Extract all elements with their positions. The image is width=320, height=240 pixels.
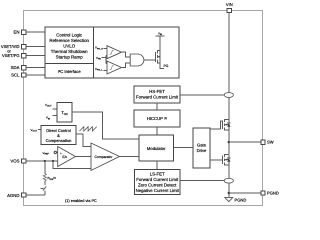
- wire VOUT to Direct Control: [38, 128, 41, 130]
- current sensor HS (ellipse): [224, 93, 233, 98]
- block HICCUP: [134, 110, 180, 127]
- block: Control Logic / Reference Selection / UVLO / Thermal Shutdown / Startup Ramp + I2C Interface: [45, 27, 179, 78]
- transistor HS-FET: [222, 119, 230, 131]
- wire sensor to PGND junction: [228, 183, 230, 197]
- pin PGND (right): [261, 191, 279, 196]
- svg-text:Forward Current Limit: Forward Current Limit: [136, 177, 179, 182]
- pin SCL: [11, 73, 26, 78]
- wire VOUT to T_ON: [53, 108, 58, 110]
- wire Modulator to Gate Drive: [174, 147, 194, 149]
- wire PG FET source to PG output: [160, 63, 164, 69]
- pin SW: [261, 140, 274, 145]
- switch (discharge enable): [41, 181, 47, 195]
- wire Gate Drive to HS-FET gate: [210, 121, 222, 129]
- wire sensor to HS-FET drain: [228, 97, 230, 119]
- svg-text:VREF: VREF: [43, 151, 50, 156]
- node junction at R_DIS branch: [44, 160, 46, 162]
- wire AND output to PG FET gate: [144, 59, 156, 61]
- wire HS block to HICCUP: [156, 103, 158, 110]
- svg-text:PG: PG: [164, 64, 169, 68]
- wire LS-FET source to sensor: [228, 165, 230, 178]
- wire SW node to SW pin: [229, 141, 261, 143]
- svg-text:Thermal Shutdown: Thermal Shutdown: [51, 49, 88, 54]
- wire SDA to I2C interface: [26, 67, 45, 69]
- block HS-FET Forward Current Limit: [134, 86, 180, 103]
- ramp waveform symbol: [80, 127, 97, 131]
- wire VIN down to current sense: [228, 13, 230, 93]
- svg-text:SCL: SCL: [11, 73, 20, 78]
- wire VOS to comparator lower input: [53, 161, 91, 169]
- wire VPG_H to comparator: [104, 48, 108, 50]
- pin AGND: [7, 193, 26, 198]
- svg-text:VOS: VOS: [10, 159, 19, 164]
- node junction at comparator branch: [52, 160, 54, 162]
- wire VREF to EA: [57, 151, 58, 153]
- pin VSET/FG: [2, 53, 26, 58]
- wire T_ON to Modulator: [72, 112, 139, 139]
- node V_REF terminal circle: [54, 151, 56, 153]
- current sensor LS (ellipse): [224, 178, 233, 183]
- svg-text:Reference Selection: Reference Selection: [49, 38, 89, 43]
- svg-text:Control Logic: Control Logic: [56, 33, 83, 38]
- wire LS block to LS current sensor: [180, 180, 224, 182]
- wire VIN to T_ON: [53, 114, 58, 116]
- svg-text:(1) enabled via I²C: (1) enabled via I²C: [65, 199, 97, 203]
- svg-text:Gate: Gate: [197, 142, 207, 147]
- block Direct Control & Compensation: [41, 126, 76, 145]
- wire Gate Drive to LS-FET gate: [210, 159, 222, 161]
- svg-text:I²C Interface: I²C Interface: [58, 69, 82, 74]
- svg-text:VSET/FG: VSET/FG: [2, 53, 20, 58]
- svg-text:PGND: PGND: [267, 191, 279, 196]
- wire EA output to comparator: [76, 156, 92, 158]
- wire VFB split to both comparators: [102, 56, 108, 64]
- block Modulator: [139, 135, 174, 161]
- pin EN: [14, 30, 26, 35]
- wire Direct Control ramp to comparator: [76, 134, 91, 147]
- resistor R_DIS: [43, 161, 56, 181]
- wire junction to PGND pin: [229, 192, 261, 194]
- svg-text:VIN: VIN: [46, 116, 51, 121]
- svg-text:Modulator: Modulator: [147, 146, 166, 151]
- transistor LS-FET: [222, 154, 230, 166]
- wire HS-FET source to SW node: [228, 130, 230, 154]
- block LS-FET Forward Current Limit / Zero Current Detect / Negative Current Limit: [135, 170, 181, 195]
- svg-text:LS-FET: LS-FET: [150, 172, 165, 177]
- svg-text:HS-FET: HS-FET: [149, 89, 165, 94]
- AND gate: [130, 54, 144, 66]
- wire HICCUP to Modulator: [156, 127, 158, 135]
- svg-text:Forward Current Limit: Forward Current Limit: [136, 95, 179, 100]
- svg-text:VOUT: VOUT: [45, 103, 52, 108]
- wire PG FET drain to VIN rail tap: [159, 36, 161, 50]
- ground PGND: [225, 197, 247, 202]
- svg-text:SDA: SDA: [11, 65, 20, 70]
- svg-text:VOUT: VOUT: [31, 128, 38, 133]
- comparator PG lower: [107, 61, 122, 74]
- wire VPG_L to comparator: [104, 69, 108, 71]
- node SW junction: [228, 141, 230, 143]
- svg-text:EN: EN: [14, 30, 20, 35]
- svg-text:Startup Ramp: Startup Ramp: [56, 55, 84, 60]
- op-amp EA (error amplifier): [58, 147, 76, 167]
- node PGND junction: [228, 192, 230, 194]
- svg-text:Comparator: Comparator: [95, 155, 114, 159]
- svg-text:Zero Current Detect: Zero Current Detect: [138, 183, 177, 188]
- svg-text:VIN: VIN: [226, 2, 233, 7]
- wire HS current limit block to sensor: [180, 94, 224, 96]
- pin VOS: [10, 159, 25, 164]
- wire AGND to discharge switch: [26, 194, 45, 196]
- wire PG comparator outputs to AND gate: [122, 52, 131, 67]
- wire comparator output to Modulator: [120, 156, 140, 158]
- svg-text:RDIS(1): RDIS(1): [48, 176, 57, 181]
- svg-text:SW: SW: [267, 140, 274, 145]
- transistor PG (power good open drain FET): [156, 50, 161, 63]
- wire SCL to I2C interface: [26, 74, 45, 76]
- IC body outline: [24, 11, 263, 206]
- wire Modulator to LS-FET block: [156, 161, 158, 170]
- wire VSET/VID to control block: [26, 46, 45, 48]
- wire VSET/FG to control block: [26, 55, 45, 57]
- power tap V_IN: [156, 31, 165, 36]
- svg-text:PGND: PGND: [235, 198, 247, 203]
- block Gate Drive: [193, 128, 210, 168]
- pin SDA: [11, 65, 26, 70]
- wire EN to control block: [26, 31, 45, 33]
- wire VOS feedback line: [26, 160, 58, 162]
- svg-text:Compensation: Compensation: [46, 138, 72, 143]
- pin VIN (top): [226, 2, 233, 13]
- svg-text:EA: EA: [62, 155, 67, 159]
- block T_ON: [57, 103, 72, 123]
- pin VSET/VID: [1, 44, 26, 49]
- svg-text:UVLO: UVLO: [63, 44, 76, 49]
- comparator (PWM): [91, 143, 120, 171]
- svg-text:AGND: AGND: [7, 193, 19, 198]
- comparator PG upper: [107, 46, 122, 59]
- svg-text:Negative Current Limit: Negative Current Limit: [136, 188, 180, 193]
- svg-text:Drive: Drive: [197, 148, 207, 153]
